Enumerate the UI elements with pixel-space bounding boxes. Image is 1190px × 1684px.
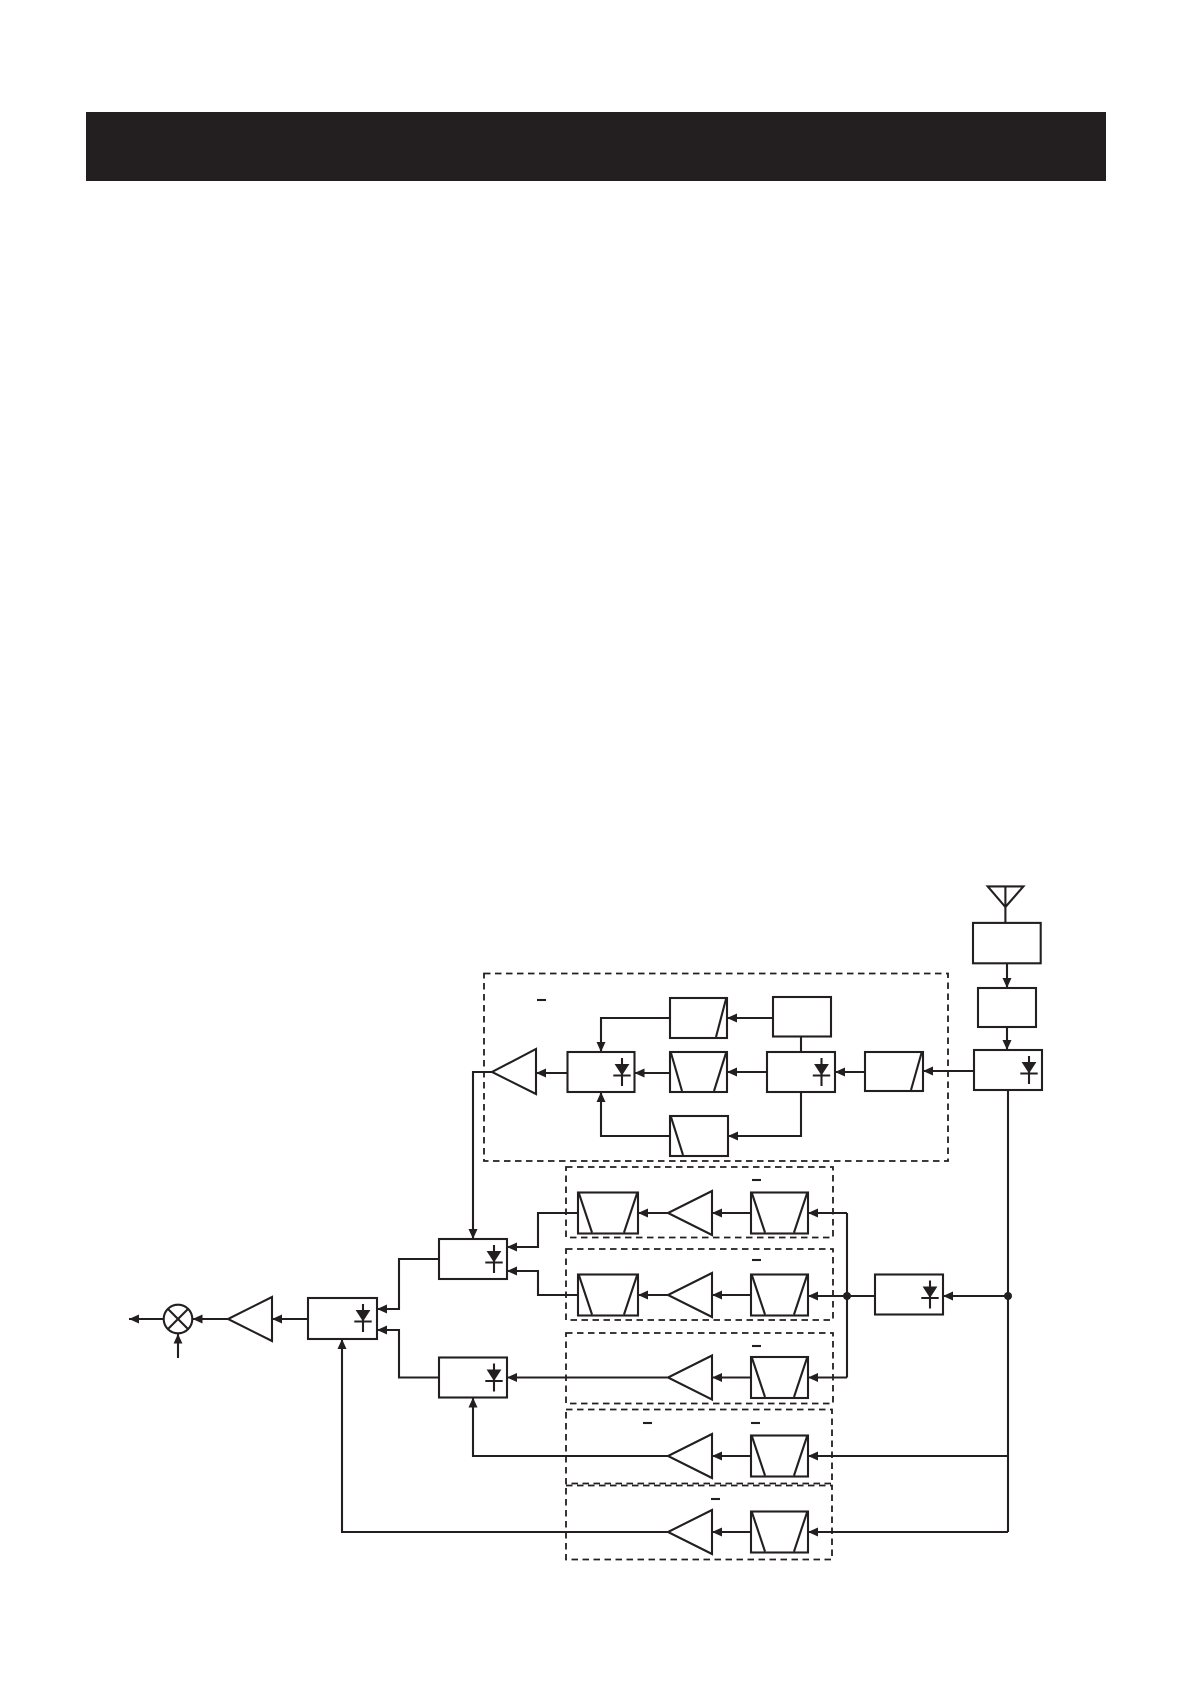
dashed group band5 — [566, 1410, 832, 1484]
wire R4 to AMP4 — [712, 1376, 751, 1378]
wire J to I — [835, 1071, 865, 1073]
amplifier AMP5 — [668, 1434, 712, 1478]
label minus band6 — [711, 1498, 720, 1500]
wire H to G — [635, 1072, 671, 1074]
block P diode switch — [439, 1239, 507, 1279]
wire L2 to P — [507, 1213, 578, 1247]
wire R5 to AMP5 — [712, 1455, 751, 1457]
wire K to G — [601, 1092, 670, 1136]
wire G to F — [536, 1072, 568, 1074]
filter R6 tracking — [751, 1512, 808, 1553]
wire R6 to AMP6 — [712, 1531, 751, 1533]
wire E to D — [727, 1017, 773, 1019]
filter R3 tracking — [751, 1275, 808, 1316]
wire P to R — [377, 1259, 439, 1309]
wire I to K — [728, 1092, 801, 1136]
wire bus to S — [943, 1295, 1008, 1297]
amplifier AMP3 — [668, 1273, 712, 1317]
label minus band3 — [752, 1259, 761, 1261]
wire band bus vertical — [846, 1213, 848, 1378]
wire AMP6 to R — [342, 1339, 668, 1532]
wire A3 to filter J — [923, 1070, 974, 1072]
label minus band5a — [643, 1422, 652, 1424]
block S diode switch — [875, 1275, 943, 1315]
amplifier F — [492, 1049, 536, 1094]
block R diode switch — [308, 1298, 377, 1339]
dashed group band4 — [566, 1333, 833, 1404]
label minus band5b — [751, 1422, 760, 1424]
wire E to I — [800, 1037, 802, 1052]
wire R3 to AMP3 — [712, 1294, 751, 1296]
wire AMP3 to L3 — [638, 1294, 668, 1296]
wire R to AMP1 — [272, 1318, 308, 1320]
block Q diode switch — [439, 1358, 507, 1398]
wire D to G — [601, 1018, 670, 1052]
filter R5 tracking — [751, 1436, 808, 1477]
block E oscillator — [773, 997, 831, 1037]
dashed group band3 — [566, 1249, 833, 1320]
amplifier AMP4 — [668, 1356, 712, 1400]
wire mixer IF out — [129, 1318, 164, 1320]
wire bus to row5 filter — [808, 1455, 1008, 1457]
filter L3 tracking — [578, 1275, 638, 1316]
dashed group band2 — [566, 1167, 833, 1238]
block I diode switch — [767, 1052, 835, 1092]
filter K tuned — [670, 1116, 728, 1156]
node bus-S junction — [1004, 1292, 1012, 1300]
amplifier AMP2 — [668, 1191, 712, 1235]
wire I to H — [727, 1071, 767, 1073]
block A3 RF switch diode — [974, 1050, 1042, 1090]
filter R4 tracking — [751, 1357, 808, 1398]
antenna ANT1 — [988, 886, 1024, 923]
wire F to P — [473, 1072, 492, 1239]
block A2 — [978, 988, 1036, 1027]
filter J tuned — [865, 1052, 923, 1091]
dashed group band6 — [566, 1486, 832, 1560]
wire S to R3 — [808, 1295, 875, 1297]
wire RF bus vertical — [1007, 1090, 1009, 1532]
amplifier AMP6 — [668, 1510, 712, 1554]
wire mixer LO in — [177, 1334, 179, 1358]
wire band bus to R4 — [808, 1376, 847, 1378]
wire AMP4 to Q — [507, 1376, 668, 1378]
wire band bus to R2 — [808, 1212, 847, 1214]
amplifier AMP1 — [228, 1297, 272, 1341]
label minus group1 — [537, 999, 546, 1001]
filter D tuned — [670, 998, 727, 1038]
header bar — [86, 112, 1106, 181]
wire A1 to A2 — [1006, 963, 1008, 988]
wire A2 to A3 — [1006, 1027, 1008, 1050]
block G diode switch — [568, 1052, 635, 1092]
block A1 antenna input — [973, 923, 1041, 963]
wire Q to R — [377, 1330, 439, 1378]
dashed group FM front end — [484, 974, 948, 1162]
wire AMP5 to Q — [473, 1398, 668, 1457]
wire R2 to AMP2 — [712, 1212, 751, 1214]
label minus band4 — [752, 1345, 761, 1347]
node band bus junction — [843, 1292, 851, 1300]
filter L2 tracking — [578, 1193, 638, 1234]
wire bus to row6 filter — [808, 1531, 1008, 1533]
wire L3 to P — [507, 1271, 578, 1295]
filter H tracking — [670, 1052, 727, 1092]
label minus band2 — [752, 1179, 761, 1181]
wire AMP2 to L2 — [638, 1212, 668, 1214]
wire AMP1 to mixer — [193, 1318, 229, 1320]
mixer X1 — [164, 1305, 193, 1334]
filter R2 tracking — [751, 1193, 808, 1234]
